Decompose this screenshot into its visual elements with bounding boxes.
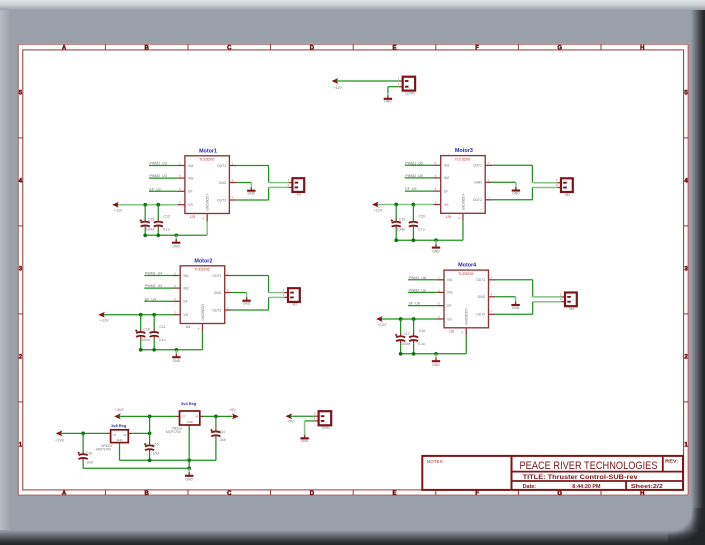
svg-text:GND: GND: [219, 181, 227, 185]
svg-text:OUT2: OUT2: [476, 313, 485, 317]
svg-text:GND: GND: [474, 181, 482, 185]
svg-text:IN: IN: [195, 414, 198, 418]
svg-text:IN: IN: [124, 433, 127, 437]
svg-text:U6: U6: [449, 330, 454, 334]
svg-text:EF: EF: [188, 190, 192, 194]
svg-text:C17: C17: [403, 332, 409, 336]
svg-text:C13: C13: [148, 217, 154, 221]
svg-text:VS: VS: [188, 203, 193, 207]
svg-text:GND/BODY: GND/BODY: [201, 303, 205, 321]
svg-text:OUT1: OUT1: [217, 164, 226, 168]
svg-text:UT: UT: [113, 433, 117, 437]
svg-text:C15: C15: [153, 443, 159, 447]
svg-text:D: D: [310, 45, 315, 51]
svg-text:Motor3: Motor3: [455, 148, 473, 154]
svg-text:MCP1700: MCP1700: [96, 447, 111, 451]
svg-text:PEACE RIVER TECHNOLOGIES: PEACE RIVER TECHNOLOGIES: [520, 460, 658, 472]
svg-text:PWM2_U3: PWM2_U3: [150, 174, 167, 178]
svg-text:IN2: IN2: [184, 286, 189, 290]
svg-text:OUT1: OUT1: [212, 274, 221, 278]
svg-text:GND: GND: [172, 245, 180, 249]
svg-text:VS: VS: [444, 203, 449, 207]
svg-text:C19: C19: [399, 217, 405, 221]
svg-text:+5V: +5V: [287, 420, 294, 424]
svg-text:C: C: [227, 45, 232, 51]
svg-text:100uf: 100uf: [146, 228, 155, 232]
svg-text:GND/BODY: GND/BODY: [461, 193, 465, 211]
svg-text:GND/BODY: GND/BODY: [465, 307, 469, 325]
svg-text:M4: M4: [569, 307, 574, 311]
svg-text:B: B: [145, 491, 150, 497]
svg-text:Motor4: Motor4: [458, 263, 476, 269]
svg-text:0.1u: 0.1u: [163, 228, 170, 232]
svg-text:12VIN: 12VIN: [405, 92, 415, 96]
svg-text:IN2: IN2: [444, 176, 449, 180]
svg-text:C20: C20: [419, 215, 425, 219]
svg-text:GND: GND: [116, 438, 122, 442]
svg-text:GND/BODY: GND/BODY: [206, 193, 210, 211]
svg-text:PWM1_U4: PWM1_U4: [145, 272, 162, 276]
svg-text:OUT2: OUT2: [212, 308, 221, 312]
svg-text:EF_U5: EF_U5: [405, 187, 416, 191]
svg-text:IN2: IN2: [188, 176, 193, 180]
svg-text:+12V: +12V: [374, 208, 383, 212]
svg-text:IN1: IN1: [188, 164, 193, 168]
svg-text:10uf: 10uf: [86, 460, 93, 464]
svg-text:OUT2: OUT2: [217, 198, 226, 202]
svg-text:GND: GND: [512, 191, 520, 195]
svg-text:PWM2_U5: PWM2_U5: [405, 174, 422, 178]
svg-text:IN1: IN1: [184, 274, 189, 278]
svg-text:G: G: [557, 491, 562, 497]
svg-text:8:44:20 PM: 8:44:20 PM: [572, 484, 601, 490]
svg-text:E: E: [392, 45, 396, 51]
svg-text:+3V3: +3V3: [115, 408, 124, 412]
svg-text:GND: GND: [173, 359, 181, 363]
svg-text:GND: GND: [432, 250, 440, 254]
svg-text:0.1u: 0.1u: [159, 338, 166, 342]
svg-text:PWM1_U5: PWM1_U5: [405, 161, 422, 165]
svg-text:A: A: [62, 45, 67, 51]
svg-text:M1: M1: [297, 193, 302, 197]
svg-text:Motor2: Motor2: [194, 258, 212, 264]
svg-text:EF: EF: [444, 189, 448, 193]
svg-text:M2: M2: [292, 303, 297, 307]
svg-text:PWM1_U6: PWM1_U6: [409, 276, 426, 280]
svg-text:TITLE: Thruster Control-SUB-re: TITLE: Thruster Control-SUB-rev: [523, 474, 639, 481]
svg-text:REV:: REV:: [665, 458, 679, 463]
svg-text:TLE5206: TLE5206: [458, 272, 473, 276]
svg-text:C18: C18: [143, 328, 149, 332]
svg-text:F: F: [475, 491, 479, 497]
svg-text:GND: GND: [185, 478, 193, 482]
svg-text:OUT1: OUT1: [473, 164, 482, 168]
svg-text:TLE5206: TLE5206: [194, 268, 209, 272]
svg-text:EF: EF: [184, 300, 188, 304]
svg-text:10uf: 10uf: [219, 438, 226, 442]
svg-text:+12V: +12V: [100, 319, 109, 323]
svg-text:C14: C14: [219, 430, 225, 434]
svg-text:EF_U3: EF_U3: [150, 187, 161, 191]
svg-text:GND: GND: [478, 295, 486, 299]
svg-text:B: B: [145, 45, 150, 51]
svg-text:100uf: 100uf: [401, 342, 410, 346]
svg-text:0.1u: 0.1u: [418, 228, 425, 232]
svg-text:GND: GND: [214, 291, 222, 295]
svg-text:3v3 Reg: 3v3 Reg: [181, 401, 197, 406]
svg-text:100uf: 100uf: [141, 338, 150, 342]
svg-text:E: E: [392, 491, 396, 497]
svg-text:GND: GND: [243, 302, 251, 306]
svg-text:A: A: [62, 491, 67, 497]
svg-text:C16: C16: [86, 451, 92, 455]
svg-text:IN1: IN1: [444, 164, 449, 168]
svg-text:100uf: 100uf: [397, 228, 406, 232]
svg-text:GND: GND: [432, 363, 440, 367]
svg-text:EF_U6: EF_U6: [409, 302, 420, 306]
svg-text:GND: GND: [384, 100, 392, 104]
svg-text:Motor1: Motor1: [199, 148, 217, 154]
svg-text:+12V: +12V: [114, 209, 123, 213]
svg-text:UT: UT: [182, 414, 186, 418]
svg-text:+12V: +12V: [333, 86, 342, 90]
svg-text:M3: M3: [565, 193, 570, 197]
svg-text:H: H: [640, 45, 644, 51]
svg-text:IN1: IN1: [447, 278, 452, 282]
svg-text:1v8 Reg: 1v8 Reg: [111, 423, 127, 428]
svg-text:PWM1_U3: PWM1_U3: [150, 162, 167, 166]
svg-text:C10: C10: [419, 329, 425, 333]
svg-text:0.1u: 0.1u: [418, 342, 425, 346]
svg-text:Date:: Date:: [523, 484, 537, 490]
svg-text:OUT2: OUT2: [473, 198, 482, 202]
svg-text:G: G: [557, 45, 562, 51]
svg-text:U4: U4: [186, 325, 191, 329]
svg-text:EF: EF: [447, 304, 451, 308]
svg-text:GND: GND: [248, 192, 256, 196]
svg-text:+1V8: +1V8: [55, 439, 64, 443]
svg-text:MCP1700: MCP1700: [166, 430, 181, 434]
svg-text:PWM2_U4: PWM2_U4: [145, 284, 162, 288]
svg-text:OUT1: OUT1: [476, 278, 485, 282]
svg-text:VS: VS: [184, 313, 189, 317]
svg-text:NOTES:: NOTES:: [427, 459, 444, 464]
svg-text:H: H: [640, 491, 644, 497]
svg-text:IN2: IN2: [447, 291, 452, 295]
svg-text:PWM2_U6: PWM2_U6: [409, 289, 426, 293]
svg-text:GND: GND: [187, 420, 193, 424]
svg-text:GND: GND: [512, 306, 520, 310]
svg-text:10uf: 10uf: [153, 452, 160, 456]
svg-text:F: F: [475, 45, 479, 51]
svg-text:D: D: [310, 491, 315, 497]
svg-text:EF_U4: EF_U4: [145, 297, 156, 301]
svg-text:U3: U3: [190, 215, 195, 219]
svg-text:Sheet:2/2: Sheet:2/2: [631, 484, 663, 490]
svg-text:+12V: +12V: [378, 323, 387, 327]
svg-text:TLE5206: TLE5206: [455, 158, 470, 162]
svg-text:TLE5206: TLE5206: [199, 158, 214, 162]
svg-text:VS: VS: [447, 317, 452, 321]
svg-text:5VIN: 5VIN: [322, 426, 330, 430]
svg-text:C: C: [227, 491, 232, 497]
svg-text:U5: U5: [446, 215, 451, 219]
svg-text:+5V: +5V: [229, 408, 236, 412]
svg-text:C12: C12: [164, 215, 170, 219]
svg-text:GND: GND: [301, 439, 309, 443]
svg-text:C11: C11: [159, 325, 165, 329]
